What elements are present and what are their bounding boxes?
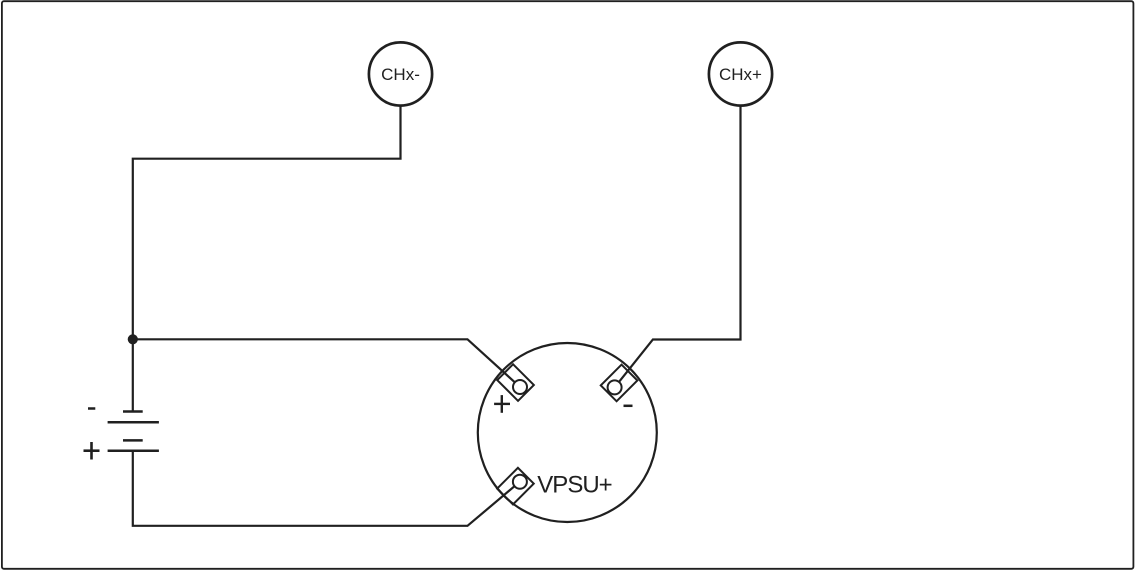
svg-text:VPSU+: VPSU+ bbox=[537, 471, 611, 498]
terminal - (pin 2) bbox=[601, 365, 638, 406]
svg-text:CHx+: CHx+ bbox=[719, 65, 762, 84]
battery plus label bbox=[84, 442, 100, 460]
terminal VPSU+ (pin 3) bbox=[497, 468, 612, 505]
svg-text:CHx-: CHx- bbox=[381, 65, 420, 84]
wire CHx+ to minus terminal bbox=[615, 105, 741, 387]
node CHx+ bbox=[709, 42, 772, 105]
wire CHx- to junction bbox=[133, 105, 401, 339]
battery minus label bbox=[88, 407, 95, 410]
terminal + (pin 1) bbox=[494, 364, 534, 413]
node CHx- bbox=[369, 42, 432, 105]
wire junction to plus terminal bbox=[133, 339, 520, 387]
battery BT1 bbox=[108, 412, 159, 451]
wire battery to VPSU+ terminal bbox=[133, 451, 520, 526]
junction node bbox=[128, 334, 138, 344]
load cell connector body U1 bbox=[478, 343, 657, 522]
wire junction to battery bbox=[132, 339, 134, 411]
